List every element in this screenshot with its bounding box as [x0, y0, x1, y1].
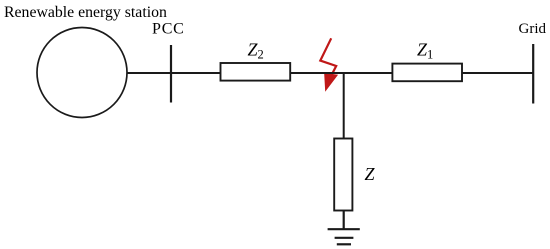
fault lightning bolt	[320, 38, 336, 75]
svg-text:Z: Z	[365, 164, 376, 184]
wire: junction node down to shunt Z	[343, 73, 345, 139]
wire: Z2 to Z1	[290, 72, 392, 74]
svg-text:PCC: PCC	[152, 21, 185, 38]
impedance Z1	[392, 64, 462, 82]
generator G (renewable energy station)	[37, 28, 127, 118]
wire: Z to ground	[343, 211, 345, 230]
impedance Z2	[221, 63, 291, 81]
svg-text:Renewable energy station: Renewable energy station	[4, 4, 167, 21]
impedance Z (shunt)	[334, 139, 352, 211]
bus bar Grid	[532, 44, 534, 104]
wire: generator to Z2	[127, 72, 221, 74]
fault arrowhead	[325, 74, 337, 90]
svg-text:Grid: Grid	[519, 21, 547, 37]
bus bar PCC	[170, 45, 172, 103]
ground	[328, 229, 360, 244]
wire: Z1 to grid	[462, 72, 533, 74]
